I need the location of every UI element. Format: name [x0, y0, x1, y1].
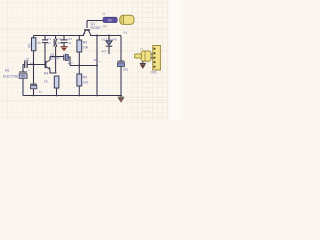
wire R4 bottom lead	[56, 88, 58, 96]
wire right column bottom	[121, 67, 122, 96]
microphone / input cap C1	[19, 72, 27, 78]
wire Q2 base vertical	[86, 21, 88, 29]
svg-text:+: +	[28, 69, 30, 73]
svg-text:1k: 1k	[44, 80, 48, 84]
wire R1 top lead	[33, 36, 35, 39]
svg-text:1k: 1k	[37, 41, 41, 45]
wire D1 lead bottom	[108, 47, 110, 55]
transistor Q2	[83, 30, 91, 36]
svg-text:1N4148: 1N4148	[106, 37, 117, 41]
wire C5 out drop	[68, 57, 70, 66]
svg-text:9V: 9V	[108, 18, 113, 22]
wire C2 leads	[44, 36, 46, 65]
resistor R3	[77, 40, 82, 52]
junction supply rail x97	[96, 35, 98, 37]
wire right column top	[120, 36, 122, 62]
svg-text:+: +	[47, 31, 49, 35]
wire mid bus	[50, 56, 64, 58]
svg-text:CN1: CN1	[150, 71, 157, 75]
junction R3/R5 node	[78, 65, 80, 67]
ground bottom right	[118, 96, 124, 103]
junction Q1 base node	[44, 64, 46, 66]
wire Q1 collector riser	[49, 57, 51, 61]
svg-text:1n: 1n	[47, 41, 51, 45]
svg-text:C1: C1	[26, 58, 30, 62]
wire bottom rail	[23, 95, 122, 97]
svg-text:J1: J1	[102, 12, 106, 16]
diode D1	[106, 41, 112, 46]
resistor R5	[77, 74, 82, 86]
svg-text:100: 100	[83, 81, 89, 85]
wires and parts	[23, 21, 122, 96]
capacitor C3 (polarized)	[54, 39, 57, 47]
junction right drop at ground rail	[96, 95, 98, 97]
resistor R4	[54, 76, 59, 88]
wire R3 leads	[78, 36, 80, 66]
svg-text:M1: M1	[5, 69, 10, 73]
wire top rail right segment	[90, 35, 121, 37]
svg-text:1k: 1k	[94, 58, 98, 62]
paper background	[0, 0, 180, 120]
battery / fuse (yellow pill)	[120, 15, 134, 24]
wire C7 column	[33, 65, 35, 96]
wire mid-right drop	[96, 36, 98, 96]
svg-text:R1: R1	[27, 43, 31, 47]
capacitor C6 (polarized, right column)	[118, 61, 125, 66]
svg-text:4u7: 4u7	[68, 62, 73, 66]
junction supply rail at D1	[108, 35, 110, 37]
ground under plug	[140, 61, 146, 68]
wire top rail left segment	[34, 35, 85, 37]
stronger paper streaks	[0, 0, 168, 120]
resistor R1	[32, 38, 36, 51]
wire lower mid bus	[70, 65, 97, 67]
svg-text:n1: n1	[68, 41, 72, 45]
stronger grid patch right side	[0, 0, 168, 120]
capacitor C7 (polarized, to ground)	[30, 84, 37, 89]
svg-text:+: +	[99, 59, 101, 63]
svg-text:1u: 1u	[39, 90, 43, 94]
svg-text:+: +	[58, 31, 60, 35]
output jack plug (yellow)	[135, 51, 152, 61]
white margin right	[169, 0, 180, 120]
junction C7 at ground rail	[33, 95, 35, 97]
wire Q2 to net label	[87, 20, 103, 22]
capacitor C2	[42, 40, 48, 43]
svg-text:R3: R3	[83, 41, 87, 45]
svg-text:+: +	[65, 51, 67, 55]
junction R4 at ground rail	[56, 95, 58, 97]
pin header (yellow)	[153, 46, 161, 71]
svg-text:10k: 10k	[83, 46, 89, 50]
transistor Q1	[46, 60, 51, 70]
wire C4 lead top	[63, 36, 65, 40]
svg-text:10u: 10u	[123, 68, 129, 72]
net label OUT (purple flag)	[103, 17, 117, 22]
junction R5 at ground rail	[78, 95, 80, 97]
wire D1 lead top	[108, 36, 110, 41]
svg-text:4V7: 4V7	[102, 50, 108, 54]
junction base node at R1 column	[33, 64, 35, 66]
svg-text:R5: R5	[83, 76, 87, 80]
wire R1 bottom lead to base node	[33, 51, 35, 65]
wire input column	[22, 65, 24, 96]
svg-text:BC547: BC547	[50, 57, 60, 61]
ground under C4	[61, 47, 68, 51]
grid paper texture	[0, 0, 168, 120]
series cap on input wire	[25, 61, 27, 69]
svg-text:1n: 1n	[30, 61, 34, 65]
svg-text:+: +	[58, 87, 60, 91]
svg-text:ELECTRET: ELECTRET	[3, 75, 20, 79]
svg-text:BC557: BC557	[91, 26, 101, 30]
capacitor C4	[61, 40, 68, 43]
wire C4 lead to ground	[63, 43, 65, 47]
capacitor C5 (series, polarized)	[64, 55, 69, 61]
wire C3 leads	[55, 36, 57, 74]
wire input to base	[23, 64, 45, 66]
svg-text:R4: R4	[44, 72, 48, 76]
wires plug to header	[151, 54, 153, 58]
svg-text:X1: X1	[140, 47, 144, 51]
wire Q1 emitter drop	[50, 70, 57, 74]
junction lower bus / right drop	[96, 65, 98, 67]
